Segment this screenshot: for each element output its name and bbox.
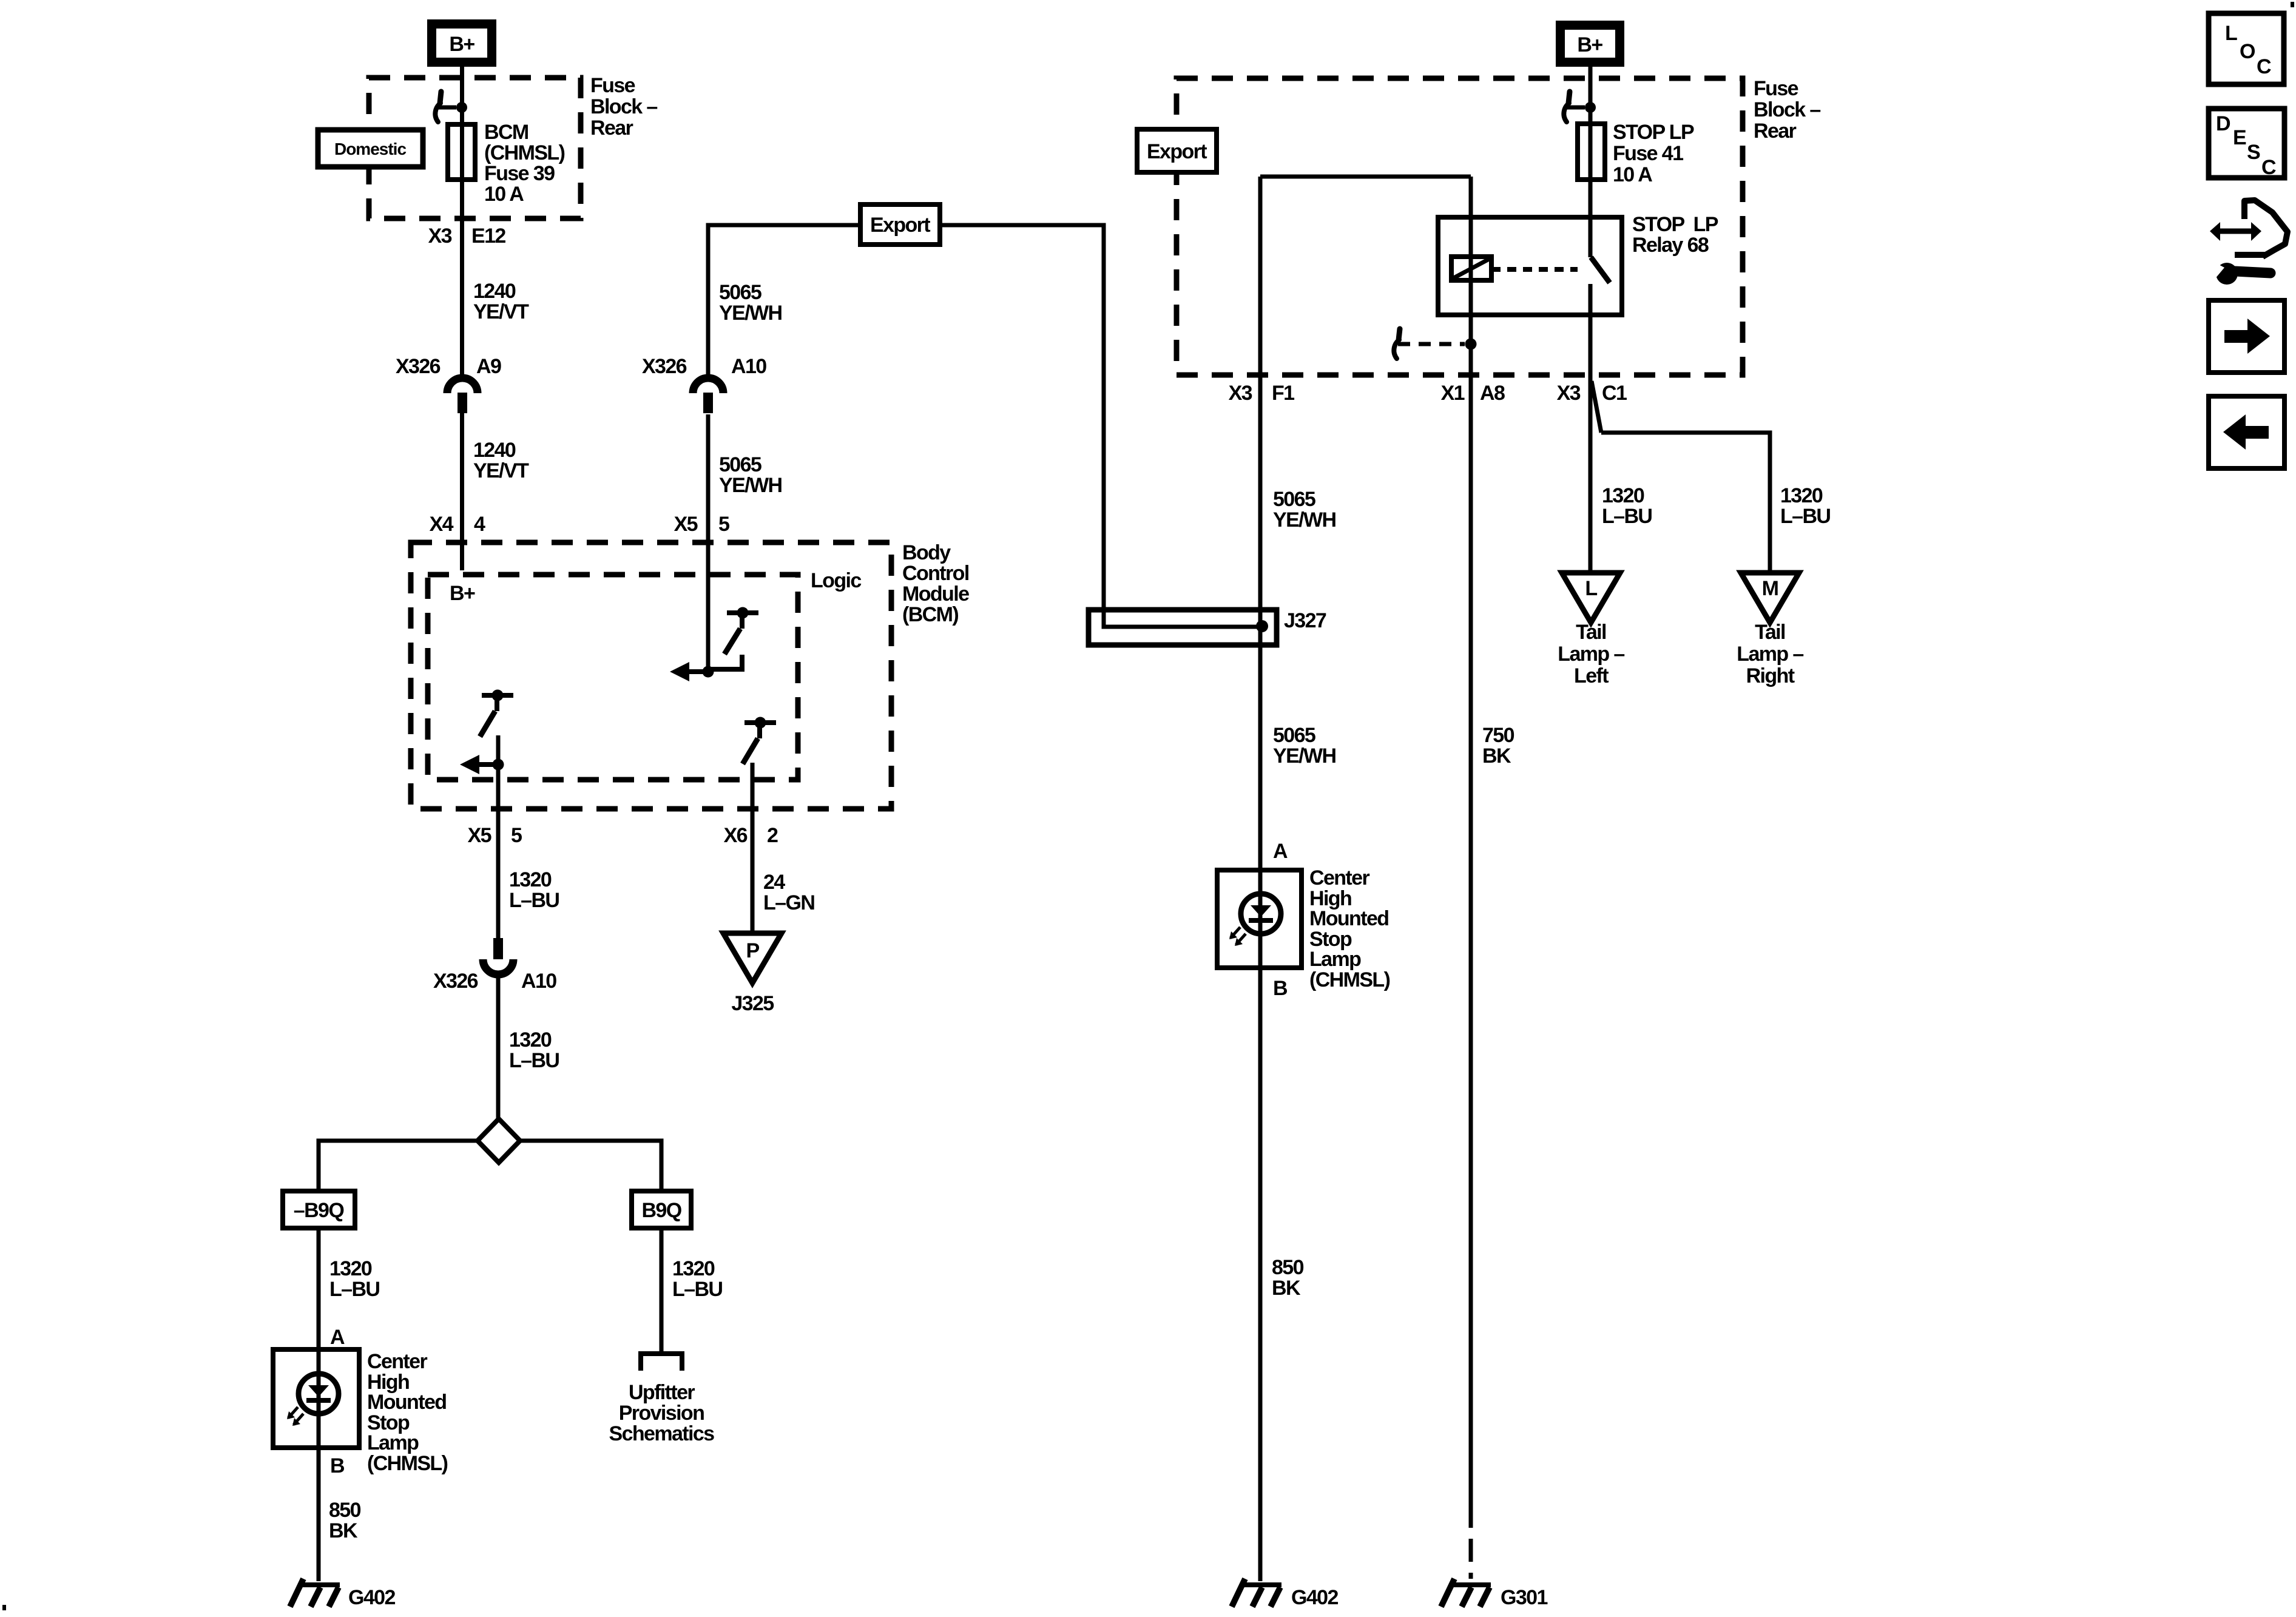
fuse 39 (BCM CHMSL fuse) bbox=[448, 124, 475, 180]
svg-text:750: 750 bbox=[1482, 724, 1514, 747]
svg-text:Provision: Provision bbox=[619, 1402, 704, 1425]
svg-text:X326: X326 bbox=[433, 970, 478, 993]
svg-text:Export: Export bbox=[870, 214, 930, 237]
svg-text:Left: Left bbox=[1574, 664, 1609, 687]
B+ power symbol (left) bbox=[427, 19, 496, 67]
svg-text:A9: A9 bbox=[476, 355, 501, 378]
terminal triangle M (tail lamp right) bbox=[1741, 573, 1799, 623]
wire B9Q to upfitter terminal bbox=[660, 1229, 664, 1352]
svg-text:Center: Center bbox=[1309, 866, 1369, 890]
svg-text:5: 5 bbox=[511, 824, 522, 847]
svg-text:24: 24 bbox=[763, 871, 785, 894]
svg-text:YE/WH: YE/WH bbox=[1273, 744, 1335, 768]
svg-text:L–BU: L–BU bbox=[672, 1278, 722, 1301]
wire branch jog to tail lamp right bbox=[1592, 381, 1601, 433]
svg-text:X3: X3 bbox=[428, 224, 452, 248]
svg-text:X6: X6 bbox=[724, 824, 748, 847]
CHMSL lamp (right) box bbox=[1217, 870, 1302, 968]
svg-text:L: L bbox=[2225, 22, 2237, 45]
sidebar next arrow box bbox=[2209, 300, 2284, 373]
wire 5065 feed down to ground G402 (right) bbox=[1258, 177, 1263, 1581]
svg-text:1320: 1320 bbox=[1602, 484, 1644, 507]
wire coil feed horizontal bbox=[1260, 175, 1471, 179]
svg-text:G301: G301 bbox=[1501, 1586, 1547, 1609]
relay box STOP LP Relay 68 bbox=[1438, 217, 1622, 315]
svg-text:L: L bbox=[1585, 577, 1597, 600]
svg-text:Body: Body bbox=[902, 541, 951, 564]
wire BCM X5 input from export bbox=[708, 225, 860, 381]
wire export to J327 bbox=[940, 225, 1257, 627]
svg-text:X1: X1 bbox=[1441, 382, 1465, 405]
svg-text:X4: X4 bbox=[430, 513, 454, 536]
svg-text:Relay 68: Relay 68 bbox=[1632, 234, 1709, 257]
wire -B9Q to ground through lamp bbox=[317, 1229, 321, 1581]
svg-text:10 A: 10 A bbox=[484, 183, 524, 206]
svg-text:5065: 5065 bbox=[1273, 724, 1315, 747]
svg-text:(BCM): (BCM) bbox=[902, 603, 958, 626]
svg-text:5065: 5065 bbox=[719, 453, 761, 476]
svg-text:Block –: Block – bbox=[590, 95, 657, 118]
svg-text:5065: 5065 bbox=[719, 281, 761, 304]
wire B+ to relay common bbox=[1589, 67, 1593, 257]
svg-text:A: A bbox=[1273, 840, 1288, 863]
svg-text:B9Q: B9Q bbox=[641, 1199, 681, 1222]
svg-text:X3: X3 bbox=[1557, 382, 1581, 405]
option box B9Q bbox=[632, 1191, 691, 1228]
svg-text:YE/WH: YE/WH bbox=[1273, 508, 1335, 532]
splice pack J327 box bbox=[1089, 610, 1277, 645]
svg-text:Lamp –: Lamp – bbox=[1558, 643, 1624, 666]
sidebar DESC box bbox=[2209, 109, 2284, 178]
connector X326 A10 (top) bbox=[693, 378, 723, 393]
svg-text:4: 4 bbox=[474, 513, 485, 536]
svg-text:Block –: Block – bbox=[1754, 98, 1820, 121]
svg-text:Schematics: Schematics bbox=[609, 1422, 715, 1445]
svg-text:Right: Right bbox=[1746, 664, 1795, 687]
svg-text:G402: G402 bbox=[1291, 1586, 1338, 1609]
wire B+ to BCM fuse 39 bbox=[460, 67, 464, 381]
svg-text:Rear: Rear bbox=[590, 116, 633, 140]
wire A9 to BCM X4 bbox=[460, 413, 464, 570]
CHMSL lamp (left) box bbox=[273, 1349, 359, 1448]
svg-text:M: M bbox=[1762, 577, 1778, 600]
body control module dashed box bbox=[411, 542, 891, 809]
relay coil dashed link bbox=[1491, 267, 1578, 272]
svg-text:Lamp –: Lamp – bbox=[1737, 643, 1803, 666]
svg-text:X326: X326 bbox=[642, 355, 687, 378]
wire relay coil branch down to A8 and 750 BK bbox=[1469, 177, 1473, 1505]
svg-text:5065: 5065 bbox=[1273, 488, 1315, 511]
clip symbol at B+ fuse 41 bbox=[1568, 92, 1570, 103]
clip symbol at fuse 39 bbox=[440, 92, 441, 103]
svg-text:A: A bbox=[330, 1326, 345, 1349]
svg-text:B+: B+ bbox=[450, 582, 475, 605]
svg-text:Logic: Logic bbox=[811, 569, 861, 592]
svg-text:YE/WH: YE/WH bbox=[719, 302, 782, 325]
svg-text:B+: B+ bbox=[1577, 33, 1602, 56]
svg-text:Fuse: Fuse bbox=[1754, 77, 1798, 100]
connector X326 A9 bbox=[447, 378, 478, 393]
ground G402 (left) bbox=[300, 1582, 340, 1587]
svg-text:A10: A10 bbox=[521, 970, 556, 993]
LED diode symbol (left) bbox=[308, 1385, 329, 1397]
switch S1 in BCM bbox=[737, 607, 749, 619]
fuse block rear (right) dashed box bbox=[1177, 78, 1743, 375]
svg-text:YE/VT: YE/VT bbox=[473, 459, 529, 482]
svg-text:Tail: Tail bbox=[1755, 621, 1785, 644]
svg-text:(CHMSL): (CHMSL) bbox=[1309, 968, 1390, 991]
artifact dot top right bbox=[2291, 2, 2294, 7]
svg-text:Module: Module bbox=[902, 582, 969, 606]
ground G301 bbox=[1451, 1582, 1491, 1587]
svg-text:Fuse: Fuse bbox=[590, 74, 635, 97]
svg-text:X3: X3 bbox=[1229, 382, 1252, 405]
svg-text:Rear: Rear bbox=[1754, 120, 1797, 143]
svg-text:(CHMSL): (CHMSL) bbox=[367, 1452, 448, 1475]
option box -B9Q bbox=[283, 1191, 355, 1228]
svg-text:10 A: 10 A bbox=[1613, 163, 1652, 186]
svg-text:C1: C1 bbox=[1602, 382, 1627, 405]
svg-text:E12: E12 bbox=[471, 224, 505, 248]
svg-text:Lamp: Lamp bbox=[367, 1431, 419, 1454]
sidebar diagnostic icon wrench bbox=[2216, 263, 2238, 285]
svg-text:O: O bbox=[2240, 40, 2255, 63]
svg-text:1320: 1320 bbox=[672, 1257, 715, 1280]
svg-text:B: B bbox=[330, 1454, 345, 1477]
relay coil bbox=[1451, 257, 1491, 280]
fuse block rear (left) dashed box bbox=[369, 78, 581, 218]
wire A10 to splice bbox=[496, 973, 501, 1119]
svg-text:Lamp: Lamp bbox=[1309, 948, 1361, 971]
svg-text:(CHMSL): (CHMSL) bbox=[484, 141, 565, 164]
wire splice to B9Q bbox=[520, 1141, 661, 1191]
connector X326 A10 (lower) bbox=[493, 938, 503, 959]
svg-text:L–BU: L–BU bbox=[509, 1049, 559, 1072]
ground G402 (right) bbox=[1241, 1582, 1281, 1587]
svg-text:1320: 1320 bbox=[509, 868, 552, 891]
svg-text:C: C bbox=[2261, 156, 2276, 179]
svg-text:5: 5 bbox=[718, 513, 729, 536]
svg-text:L–BU: L–BU bbox=[509, 889, 559, 912]
terminal triangle L (tail lamp left) bbox=[1562, 573, 1620, 623]
svg-text:Mounted: Mounted bbox=[1309, 907, 1388, 930]
splice diamond bbox=[478, 1119, 520, 1163]
export box (middle) bbox=[860, 204, 940, 245]
svg-text:X326: X326 bbox=[396, 355, 441, 378]
export box (right) bbox=[1137, 129, 1217, 172]
svg-text:STOP LP: STOP LP bbox=[1613, 121, 1694, 144]
B+ power symbol (right) bbox=[1556, 21, 1624, 67]
svg-text:P: P bbox=[746, 939, 759, 962]
svg-text:–B9Q: –B9Q bbox=[294, 1199, 345, 1222]
svg-text:D: D bbox=[2216, 112, 2230, 135]
wire X5 input into BCM bbox=[706, 414, 711, 669]
svg-text:2: 2 bbox=[767, 824, 778, 847]
svg-text:BCM: BCM bbox=[484, 121, 528, 144]
svg-text:X5: X5 bbox=[674, 513, 698, 536]
svg-text:1320: 1320 bbox=[329, 1257, 372, 1280]
svg-text:A8: A8 bbox=[1480, 382, 1505, 405]
sidebar diagnostic icon outline bbox=[2244, 200, 2288, 257]
svg-text:1320: 1320 bbox=[509, 1028, 552, 1052]
LED diode symbol (right) bbox=[1251, 905, 1271, 917]
svg-text:Control: Control bbox=[902, 562, 969, 585]
logic dashed box bbox=[428, 575, 798, 780]
wire splice to -B9Q bbox=[319, 1141, 478, 1191]
svg-text:BK: BK bbox=[1272, 1277, 1301, 1300]
svg-text:850: 850 bbox=[1272, 1256, 1304, 1279]
sidebar LOC box bbox=[2209, 13, 2284, 84]
svg-text:Domestic: Domestic bbox=[334, 140, 406, 158]
relay switch blade bbox=[1591, 257, 1610, 283]
svg-text:G402: G402 bbox=[348, 1586, 395, 1609]
wire BCM X5 output bbox=[496, 735, 501, 938]
Domestic option box bbox=[318, 130, 423, 167]
svg-text:F1: F1 bbox=[1272, 382, 1294, 405]
sidebar diagnostic icon double arrow bbox=[2218, 229, 2252, 234]
svg-text:A10: A10 bbox=[731, 355, 766, 378]
svg-text:B: B bbox=[1273, 977, 1288, 1000]
svg-text:J327: J327 bbox=[1284, 609, 1326, 632]
svg-text:1240: 1240 bbox=[473, 439, 516, 462]
svg-text:J325: J325 bbox=[731, 992, 774, 1015]
svg-text:BK: BK bbox=[329, 1519, 358, 1542]
svg-text:X5: X5 bbox=[468, 824, 491, 847]
svg-text:Fuse 39: Fuse 39 bbox=[484, 162, 555, 185]
clip symbol at relay coil A8 bbox=[1399, 329, 1400, 340]
sidebar back arrow box bbox=[2209, 396, 2284, 468]
svg-text:E: E bbox=[2233, 126, 2246, 149]
svg-text:L–BU: L–BU bbox=[329, 1278, 379, 1301]
svg-text:L–GN: L–GN bbox=[763, 891, 814, 914]
switch S2 in BCM bbox=[492, 690, 504, 701]
svg-text:1240: 1240 bbox=[473, 280, 516, 303]
terminal triangle P (J325) bbox=[723, 933, 782, 983]
svg-text:L–BU: L–BU bbox=[1780, 505, 1830, 528]
fuse 41 STOP LP bbox=[1578, 124, 1605, 180]
svg-text:1320: 1320 bbox=[1780, 484, 1823, 507]
upfitter provision terminal bbox=[641, 1354, 682, 1371]
svg-text:Mounted: Mounted bbox=[367, 1391, 446, 1414]
wire relay output to tail lamp left bbox=[1589, 284, 1593, 573]
artifact dot bottom left bbox=[2, 1605, 6, 1610]
svg-text:S: S bbox=[2247, 141, 2260, 164]
svg-text:L–BU: L–BU bbox=[1602, 505, 1652, 528]
svg-text:Tail: Tail bbox=[1576, 621, 1606, 644]
svg-text:BK: BK bbox=[1482, 744, 1511, 768]
wire BCM X6 to J325 bbox=[751, 763, 755, 933]
svg-text:Fuse 41: Fuse 41 bbox=[1613, 142, 1683, 165]
switch S3 in BCM bbox=[755, 717, 766, 729]
svg-text:YE/VT: YE/VT bbox=[473, 300, 529, 323]
svg-text:Export: Export bbox=[1147, 140, 1207, 163]
svg-text:C: C bbox=[2257, 55, 2271, 78]
svg-text:B+: B+ bbox=[449, 33, 474, 56]
svg-text:Center: Center bbox=[367, 1350, 427, 1373]
svg-text:Upfitter: Upfitter bbox=[629, 1381, 695, 1404]
svg-text:STOP LP: STOP LP bbox=[1632, 213, 1718, 236]
svg-text:850: 850 bbox=[329, 1499, 361, 1522]
svg-text:YE/WH: YE/WH bbox=[719, 474, 782, 497]
